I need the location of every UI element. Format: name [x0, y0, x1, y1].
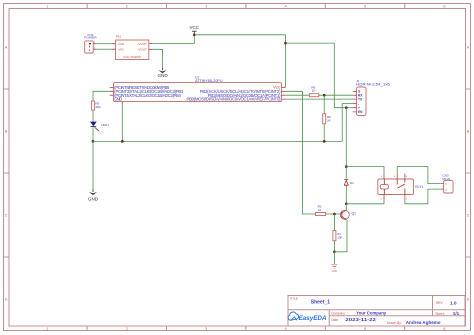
svg-text:C: C — [467, 213, 470, 217]
title block — [288, 296, 465, 327]
connector CN3 — [441, 173, 453, 193]
wire collector — [345, 204, 347, 210]
svg-text:1: 1 — [46, 4, 48, 8]
wire rail down to GND symbol — [92, 141, 94, 188]
wire LED1 to ground rail — [92, 127, 94, 141]
ground symbol (left) — [88, 189, 99, 202]
wire emitter rail — [334, 220, 347, 252]
wire R2 to Q1 base — [326, 213, 342, 215]
svg-text:VCC: VCC — [273, 86, 281, 90]
svg-text:6: 6 — [443, 327, 445, 331]
wire PS1 +VOUT up to VCC — [152, 35, 194, 44]
wire down to relay coil node — [345, 108, 347, 167]
svg-text:EN: EN — [358, 110, 363, 114]
svg-text:+VIN: +VIN — [118, 42, 125, 46]
svg-text:6: 6 — [443, 4, 445, 8]
power flag VCC — [190, 25, 200, 35]
node VCC junction — [193, 33, 196, 36]
svg-text:HDR-M-2.54_1x6: HDR-M-2.54_1x6 — [356, 83, 390, 87]
resistor R2 — [315, 204, 325, 215]
wire down to U1 VCC pin — [285, 35, 287, 88]
svg-text:POWER: POWER — [84, 36, 97, 40]
svg-text:Q1: Q1 — [352, 212, 356, 216]
node emitter rail junction — [333, 250, 336, 253]
svg-text:VCC: VCC — [190, 25, 200, 30]
wire CN2 pin2 to PS1 -VIN — [97, 48, 112, 50]
top ticks — [87, 4, 405, 9]
svg-text:-VIN: -VIN — [118, 47, 124, 51]
wire R5 to LED1 — [92, 110, 94, 122]
svg-text:4: 4 — [285, 327, 287, 331]
wire R9 to ground rail — [323, 124, 325, 142]
svg-text:Your Company: Your Company — [356, 311, 386, 316]
wire ground rail — [93, 140, 342, 142]
svg-text:D: D — [5, 297, 8, 301]
svg-text:2023-11-22: 2023-11-22 — [345, 317, 376, 322]
svg-text:2: 2 — [126, 327, 128, 331]
wire base junction down to R1 — [333, 214, 335, 231]
wire coil bottom — [346, 201, 384, 204]
svg-text:1.0: 1.0 — [450, 300, 457, 306]
wire U1 PB2 to R2 (relay drive) — [285, 91, 315, 214]
svg-text:-VOUT: -VOUT — [137, 47, 147, 51]
svg-text:GND: GND — [114, 97, 122, 102]
svg-text:1: 1 — [46, 327, 48, 331]
svg-text:GND: GND — [88, 196, 99, 201]
svg-text:3: 3 — [205, 327, 207, 331]
ground flag (red) — [331, 265, 337, 273]
EasyEDA logo — [288, 312, 327, 322]
wire U1 PB1 to R6 — [285, 94, 309, 96]
LED LED1 — [90, 122, 109, 132]
wire R6 to J1 RX — [319, 94, 353, 96]
wire CN2 pin1 to PS1 +VIN — [97, 43, 112, 45]
node VCC branch junction — [284, 42, 287, 45]
wire U1 GND pin down — [121, 104, 123, 141]
node relay coil top junction — [345, 165, 348, 168]
svg-text:PS1: PS1 — [116, 35, 122, 39]
wire relay common to CN3 pin2 — [405, 189, 441, 204]
resistor R6 — [309, 85, 318, 96]
svg-text:+VOUT: +VOUT — [137, 42, 147, 46]
wire U1 PB3 to R5 — [93, 91, 110, 101]
svg-text:GND: GND — [157, 73, 168, 78]
svg-text:1k: 1k — [318, 208, 322, 212]
svg-text:LED1: LED1 — [101, 123, 109, 127]
wire diode lower segment — [345, 185, 347, 204]
svg-text:390: 390 — [95, 105, 100, 109]
svg-text:5: 5 — [364, 327, 366, 331]
wire relay NO contact to CN3 pin1 — [397, 167, 441, 184]
transistor Q1 — [340, 210, 356, 220]
converter PS1 — [112, 35, 152, 60]
wire to J1 plus pin — [346, 107, 352, 109]
wire VCC rail — [194, 34, 285, 36]
wire PS1 -VOUT to GND — [152, 49, 162, 68]
wire coil top — [346, 167, 384, 174]
diode D1 — [344, 180, 354, 186]
svg-text:Company:: Company: — [331, 311, 346, 315]
svg-text:Sheet_1: Sheet_1 — [311, 300, 330, 306]
svg-text:C: C — [5, 213, 8, 217]
svg-text:Drawn By:: Drawn By: — [387, 321, 402, 325]
wire collector up — [345, 208, 347, 211]
svg-text:GND: GND — [332, 270, 338, 273]
svg-text:(PCINT4/XTAL2/CLKO/OC1B/ADC2)P: (PCINT4/XTAL2/CLKO/OC1B/ADC2)PB4 — [114, 93, 181, 98]
svg-text:AC-DC CONVERTER: AC-DC CONVERTER — [123, 56, 141, 59]
wire J1 minus to ground rail — [342, 104, 353, 142]
svg-text:PB0(MOSI/DI/SDA/AIN0/OC0A/OC1A: PB0(MOSI/DI/SDA/AIN0/OC0A/OC1A#/AREF/PCI… — [187, 97, 282, 102]
svg-text:D: D — [467, 297, 470, 301]
wire down to GND flag — [333, 252, 335, 264]
svg-text:Date:: Date: — [331, 318, 339, 322]
bottom ticks — [87, 326, 405, 331]
wire junction down to R9 — [323, 95, 325, 114]
wire R1 to emitter rail — [333, 241, 335, 252]
svg-text:Andrea Aghemo: Andrea Aghemo — [406, 320, 441, 326]
svg-text:1k: 1k — [312, 89, 316, 93]
resistor R5 — [91, 101, 100, 110]
svg-text:TITLE:: TITLE: — [290, 297, 299, 301]
svg-text:2K: 2K — [327, 118, 331, 122]
relay RLY1 — [378, 174, 424, 201]
node R9 rail junction — [323, 140, 326, 143]
svg-text:REV:: REV: — [436, 301, 443, 305]
svg-text:2: 2 — [126, 4, 128, 8]
svg-text:1/1: 1/1 — [453, 311, 460, 316]
svg-text:3: 3 — [205, 4, 207, 8]
wire diode upper segment — [345, 167, 347, 179]
connector CN2 — [84, 33, 97, 53]
node plus junction — [345, 106, 348, 109]
ground symbol (converter) — [157, 68, 168, 78]
wire VCC branch to header — [286, 43, 347, 108]
svg-text:Sheet:: Sheet: — [435, 312, 444, 316]
svg-text:10K: 10K — [337, 236, 342, 240]
wire U1 PB0 to J1 TX — [285, 98, 352, 100]
header J1 — [353, 79, 390, 116]
node relay coil bottom junction — [345, 202, 348, 205]
node R6 R9 junction — [323, 94, 326, 97]
svg-text:4: 4 — [285, 4, 287, 8]
resistor R9 — [323, 114, 331, 124]
resistor R1 — [333, 231, 343, 241]
MCU U1 — [110, 76, 286, 105]
svg-text:EasyEDA: EasyEDA — [299, 315, 327, 322]
left ticks — [4, 89, 10, 257]
svg-text:RLY1: RLY1 — [415, 185, 423, 189]
node LED rail junction — [92, 140, 95, 143]
svg-text:D1: D1 — [350, 181, 354, 185]
node U1 GND rail junction — [121, 140, 124, 143]
node base junction — [333, 213, 336, 216]
right ticks — [466, 89, 471, 257]
svg-text:5: 5 — [364, 4, 366, 8]
